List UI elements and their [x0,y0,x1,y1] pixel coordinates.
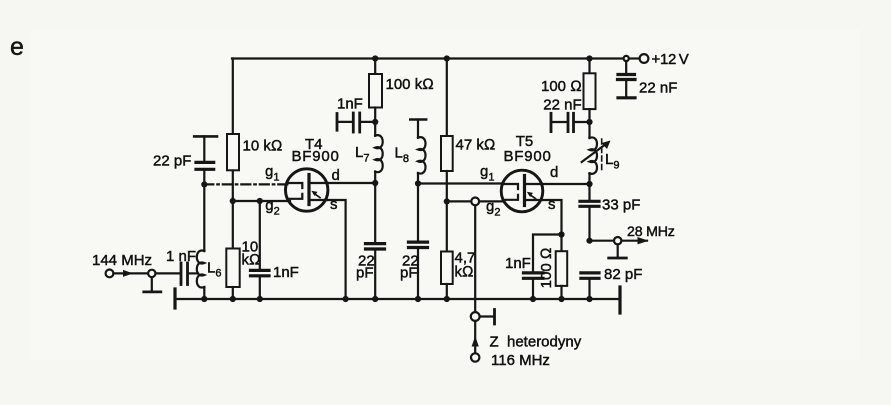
svg-text:33 pF: 33 pF [602,197,640,214]
transistor T5 BF900 [501,170,543,212]
ground stub under output circle [617,245,619,259]
wire L6 to ground rail [203,287,205,299]
node junction L7 top [372,119,378,125]
node junction L8 bottom [415,180,421,186]
resistor 100R top [588,59,590,74]
capacitor 1nF input [180,263,183,285]
ground rail right bar [618,287,621,313]
svg-text:100 Ω: 100 Ω [541,78,582,95]
node rail junction L6 [201,296,207,302]
ground stub right of heterodyne circle [480,315,494,317]
svg-text:Z heterodyny: Z heterodyny [490,334,582,351]
svg-text:116 MHz: 116 MHz [491,352,550,369]
node rail junction 82pF [586,296,592,302]
node junction 47k/4.7k g2 [444,198,450,204]
capacitor 22pF no.1 [366,183,385,299]
wire T5 drain to L9 column [542,183,589,185]
wire to output circle [590,240,614,242]
svg-text:+12 V: +12 V [652,51,689,68]
node heterodyne connector circle [471,312,480,321]
wire T5 source corner [542,200,562,235]
node junction output [586,238,592,244]
node junction T5 source [558,231,564,237]
inductor L8 with stub [410,120,426,184]
wire 22pF node down to L6 [203,184,205,251]
node +12V terminal circle [640,54,649,63]
svg-text:10 kΩ: 10 kΩ [243,138,283,155]
ground rail left bar [173,289,176,308]
wire to +12V terminal [629,57,640,59]
ground rail [175,298,620,300]
node rail junction T4 source [343,296,349,302]
svg-text:1nF: 1nF [337,96,363,113]
node junction 100k top [372,55,378,61]
capacitor 22nF decoupling at +12V [618,61,636,98]
svg-text:82 pF: 82 pF [604,266,642,283]
node rail junction 22pF2 [415,296,421,302]
node rail junction 4.7k [444,296,450,302]
resistor 100k [374,59,376,75]
svg-text:1nF: 1nF [505,255,531,272]
resistor 10k lower-left [232,201,234,249]
inductor L7 [374,122,376,136]
svg-text:s: s [330,196,338,213]
capacitor 22nF series T5 [551,113,590,131]
svg-text:144 MHz: 144 MHz [92,252,152,269]
node input terminal circle [106,270,114,278]
node output circle [614,237,621,244]
capacitor 1nF bottom-left [251,201,270,299]
node junction T5 drain [586,181,592,187]
resistor 10k upper-left [227,134,239,170]
wire heterodyne vertical [474,205,476,312]
svg-text:1 nF: 1 nF [166,248,196,265]
node input second circle [148,270,155,277]
ground stub under input circle [151,277,153,292]
svg-text:kΩ: kΩ [455,264,474,281]
node heterodyne circle on g2 line [471,198,479,206]
wire L8 to T5 g1 [418,182,503,184]
svg-text:e: e [10,33,24,61]
svg-text:28 MHz: 28 MHz [627,224,675,240]
node rail junction 10k [230,296,236,302]
capacitor 33pF [580,184,599,241]
wire heterodyne arrow up [474,321,476,353]
capacitor 1nF T5 source [524,273,544,299]
svg-text:s: s [548,196,556,213]
svg-text:d: d [550,164,558,181]
wire T4 drain to L7 [328,182,375,184]
node junction L7 bottom [372,180,378,186]
svg-text:pF: pF [400,265,418,282]
node junction 1nF top [257,198,263,204]
wire input arrow [114,272,148,274]
capacitor 1nF T4 drain [337,113,375,132]
resistor 4.7k [446,201,448,251]
svg-text:BF900: BF900 [504,148,552,165]
wire T4 source corner to ground [327,200,346,299]
wire +12V top rail [232,57,624,59]
svg-text:1nF: 1nF [273,264,299,281]
svg-text:22 pF: 22 pF [153,153,191,170]
wire source to 1nF branch [533,235,562,272]
capacitor 22pF no.2 [409,184,428,300]
wire g1 dash-dot line to T4 [204,183,288,185]
svg-text:100 Ω: 100 Ω [538,248,555,289]
node junction 22nF/L9 [586,119,592,125]
wire left drop from rail to R 10k [232,59,234,134]
wire 10k bottom to g2 node [232,171,234,202]
svg-text:100 kΩ: 100 kΩ [386,76,434,93]
node rail junction 1nF [257,296,263,302]
node junction 47k top [444,55,450,61]
resistor 100R source [560,235,562,252]
node junction g1/22pF [201,181,207,187]
wire output arrow [622,240,648,242]
node rail junction 100R [558,296,564,302]
node rail junction 1nF T5 [530,296,536,302]
wire 1nF to L6 tap [189,272,198,274]
node junction 100R top [586,55,592,61]
capacitor 82pF [581,273,599,299]
svg-text:22 nF: 22 nF [639,80,677,97]
capacitor 22pF input trimmer [194,136,217,184]
resistor 47k [446,59,448,137]
wire g2 line T5 [447,200,503,202]
wire g2 line T4 [233,200,290,202]
svg-text:pF: pF [356,265,374,282]
svg-text:47 kΩ: 47 kΩ [456,137,496,154]
svg-text:BF900: BF900 [292,148,340,165]
inductor L6 [197,250,205,287]
wire circle to 1nF [156,272,180,274]
transistor T4 BF900 [286,169,328,211]
node small circle on +12V rail [624,56,629,61]
svg-text:22 nF: 22 nF [543,97,581,114]
svg-text:kΩ: kΩ [242,252,261,269]
node heterodyne input terminal [471,353,479,361]
node rail junction 22pF1 [372,296,378,302]
svg-text:d: d [332,167,340,184]
inductor L9 variable [582,122,611,184]
node g2 divider junction [230,198,236,204]
